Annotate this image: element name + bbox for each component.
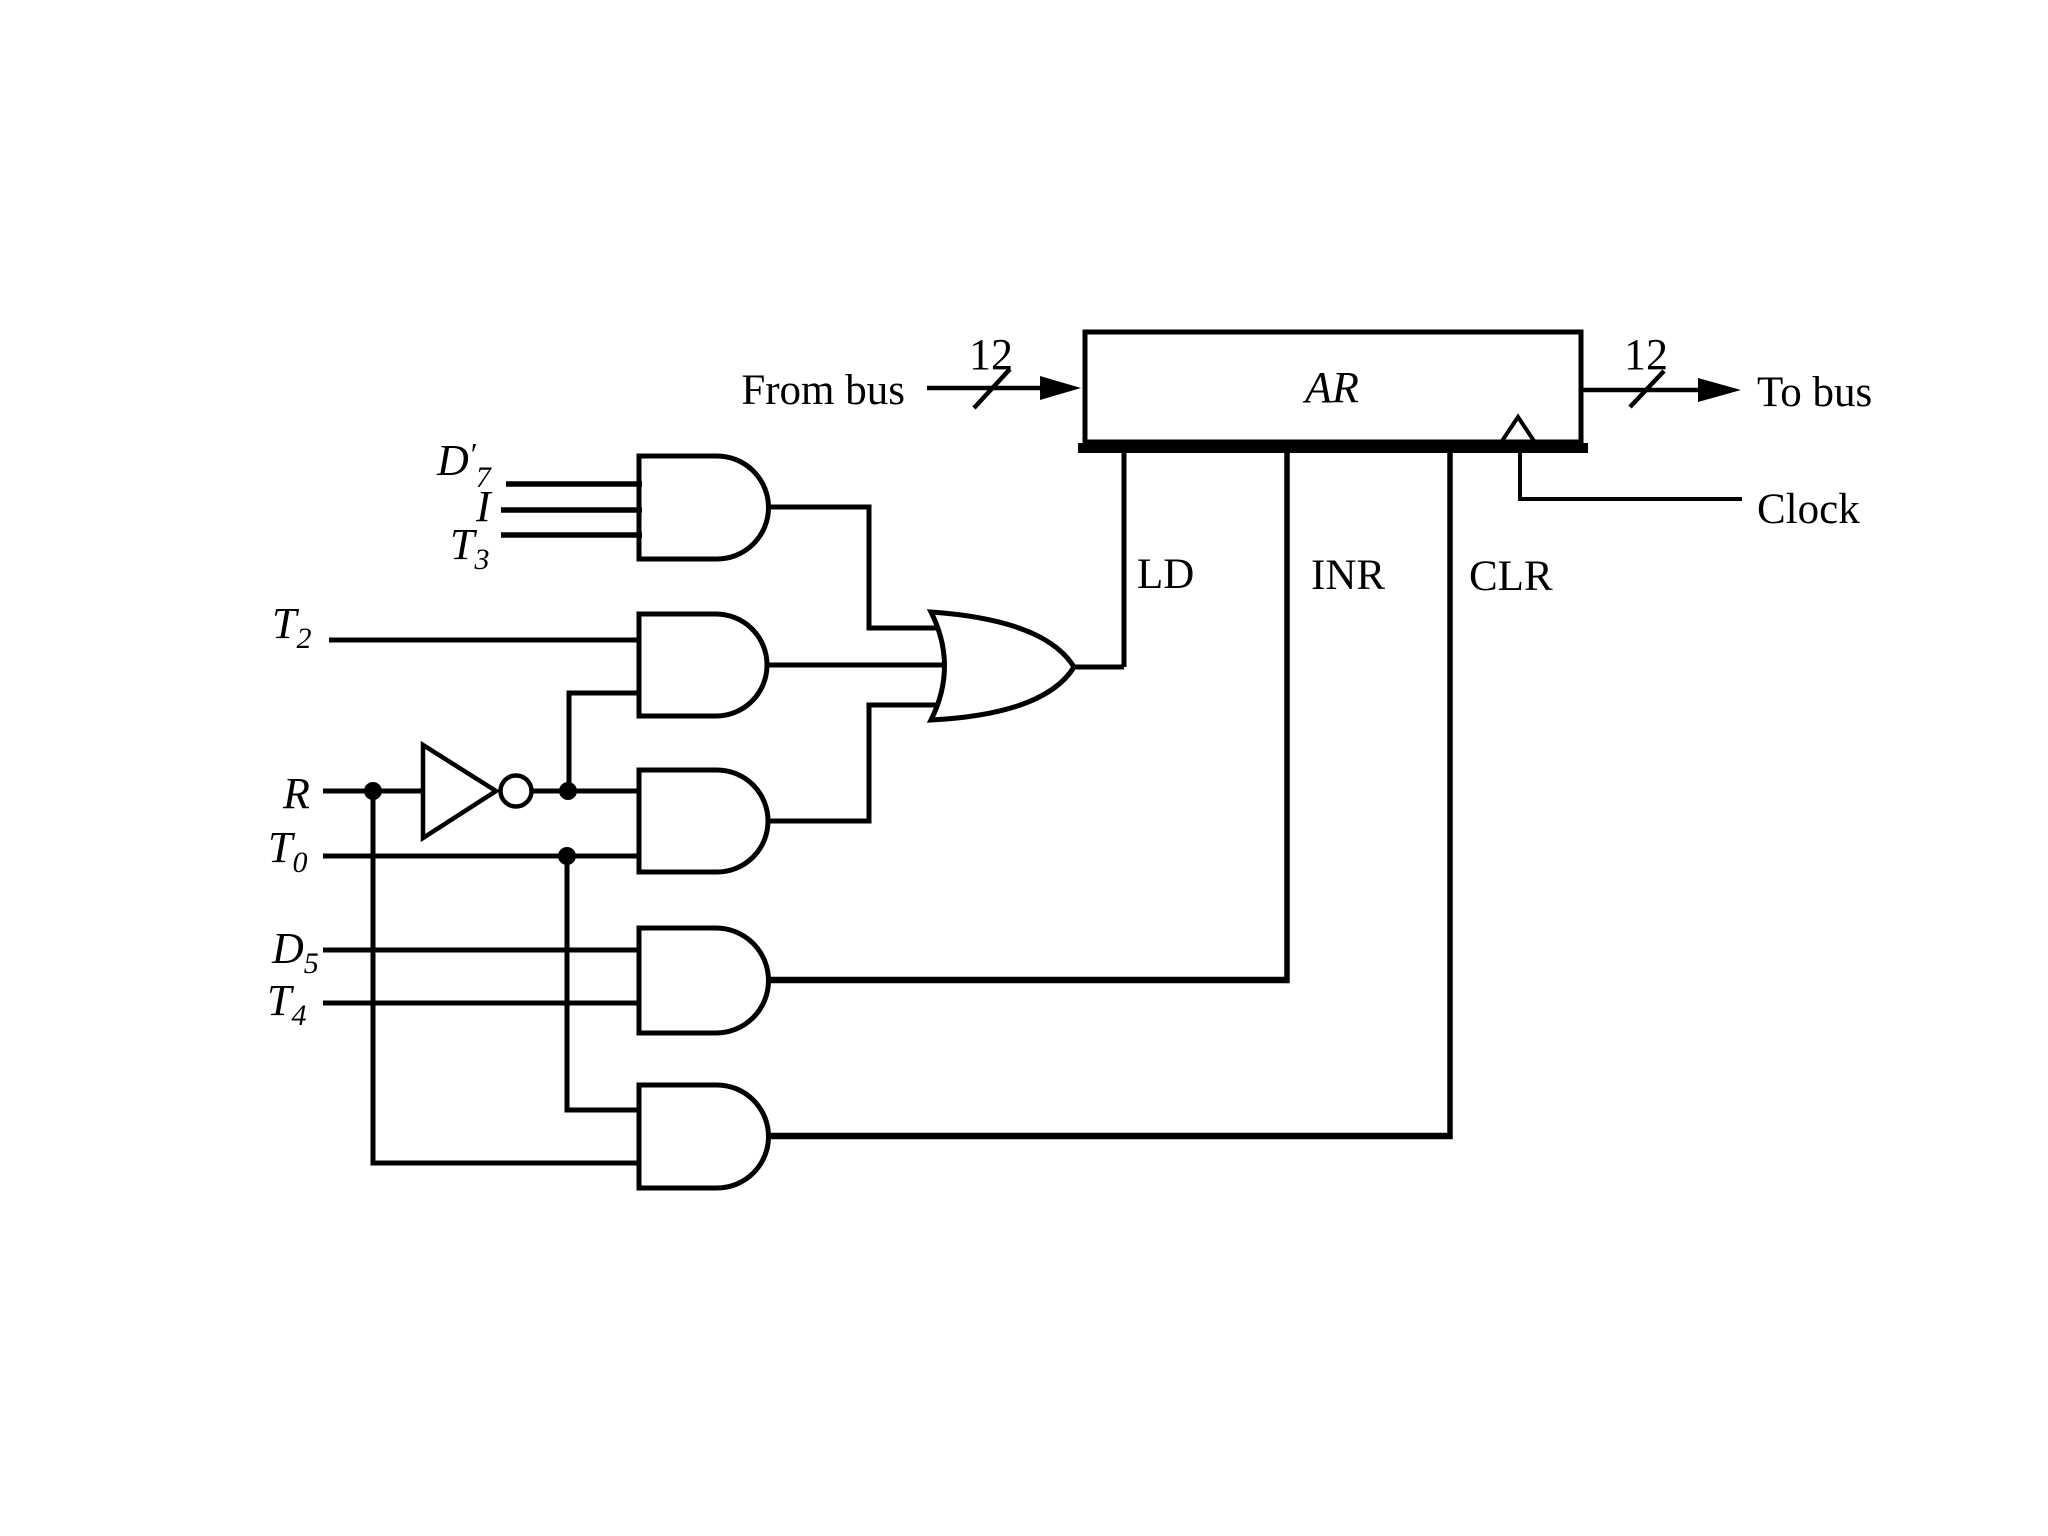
clock edge caret bbox=[1500, 417, 1536, 444]
node: R' junction bbox=[559, 782, 577, 800]
slash: to-bus width mark bbox=[1630, 371, 1664, 407]
svg-text:12: 12 bbox=[969, 330, 1013, 379]
register AR box bbox=[1085, 332, 1581, 442]
arrowhead to bus bbox=[1698, 378, 1741, 402]
wire: T0 trunk down to gate5 upper input bbox=[567, 856, 639, 1110]
AND gate U3 (R' T0) bbox=[639, 770, 768, 872]
wire: T4 input line bbox=[323, 1001, 639, 1006]
wire: D'7 input stub bbox=[506, 481, 642, 487]
wire: clock line bbox=[1520, 446, 1742, 499]
wire: gate5 output to CLR bbox=[768, 1133, 1453, 1140]
node: R junction bbox=[364, 782, 382, 800]
wire: T2 input line bbox=[329, 638, 639, 643]
svg-text:R: R bbox=[282, 769, 310, 818]
node: T0 junction bbox=[558, 847, 576, 865]
inverter U6 bbox=[423, 745, 496, 838]
AND gate U5 (T0 R) bbox=[639, 1085, 769, 1188]
svg-text:INR: INR bbox=[1311, 552, 1385, 599]
register AR bottom edge (thick) bbox=[1078, 443, 1588, 453]
svg-text:From bus: From bus bbox=[741, 367, 905, 414]
wire: gate3 output to OR bottom input bbox=[768, 705, 945, 821]
svg-text:AR: AR bbox=[1302, 363, 1359, 412]
arrowhead into AR bbox=[1040, 376, 1081, 400]
wire: From bus line bbox=[927, 386, 1046, 391]
wire: T0 input line bbox=[323, 854, 639, 859]
svg-text:12: 12 bbox=[1624, 330, 1668, 379]
wire: CLR vertical bbox=[1447, 446, 1453, 1139]
AND gate U2 (T2 R') bbox=[639, 614, 767, 716]
wire: OR output to LD bbox=[1074, 665, 1124, 670]
svg-text:I: I bbox=[475, 482, 493, 531]
svg-text:To bus: To bus bbox=[1757, 369, 1872, 416]
wire: R trunk down to gate5 lower input bbox=[373, 791, 639, 1163]
svg-text:CLR: CLR bbox=[1469, 553, 1553, 600]
svg-text:LD: LD bbox=[1137, 551, 1194, 598]
wire: gate2 output to OR middle input bbox=[768, 663, 950, 668]
wire: INR vertical bbox=[1284, 446, 1290, 983]
wire: To bus line bbox=[1583, 388, 1700, 393]
wire: gate4 output to INR bbox=[768, 977, 1290, 984]
wire: inverter output R' to gate3 bbox=[532, 789, 639, 794]
AND gate U1 (D'7 I T3) bbox=[639, 456, 769, 559]
slash: from-bus width mark bbox=[974, 369, 1010, 408]
wire: T3 input stub bbox=[501, 532, 642, 538]
wire: R input line bbox=[323, 789, 423, 794]
wire: LD vertical bbox=[1122, 446, 1127, 667]
wire: gate1 output to OR top input bbox=[768, 507, 945, 628]
wire: D5 input line bbox=[323, 948, 639, 953]
wire: R' branch to gate2 lower input bbox=[569, 693, 639, 791]
inverter bubble bbox=[501, 776, 532, 807]
OR gate U7 bbox=[931, 612, 1074, 720]
svg-text:Clock: Clock bbox=[1757, 486, 1860, 533]
wire: I input stub bbox=[501, 507, 642, 513]
AND gate U4 (D5 T4) bbox=[639, 928, 769, 1033]
